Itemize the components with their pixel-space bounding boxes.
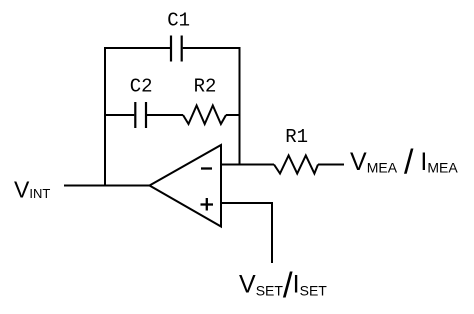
capacitor C2 <box>135 102 146 128</box>
wire inverting input to R1 <box>221 164 274 166</box>
wire R1 to V_MEA/I_MEA <box>318 164 344 166</box>
wire top feedback horizontal right of C1 <box>183 47 240 49</box>
svg-text:R2: R2 <box>194 76 217 98</box>
wire top feedback horizontal left of C1 <box>104 47 170 49</box>
wire middle branch right of R2 <box>226 114 240 116</box>
node V_MEA / I_MEA label <box>350 144 458 182</box>
capacitor C1 <box>171 36 182 62</box>
svg-text:C2: C2 <box>130 76 153 98</box>
value label C1 <box>167 10 190 32</box>
op-amp non-inverting input symbol + <box>201 198 214 211</box>
wire left feedback vertical <box>104 48 106 187</box>
op-amp U1 <box>150 145 222 227</box>
op-amp inverting input symbol - <box>201 167 212 169</box>
wire input from V_INT to op-amp apex <box>64 185 151 187</box>
resistor R2 <box>183 106 226 125</box>
wire right feedback vertical <box>239 47 241 165</box>
resistor R1 <box>274 156 318 174</box>
svg-text:R1: R1 <box>285 126 308 148</box>
wire middle branch left of C2 <box>105 114 134 116</box>
value label C2 <box>130 76 153 98</box>
node V_INT label <box>14 177 50 203</box>
wire non-inverting input horizontal <box>221 202 272 204</box>
wire middle branch between C2 and R2 <box>147 114 183 116</box>
value label R1 <box>285 126 308 148</box>
wire non-inverting input vertical down to V_SET/I_SET <box>271 202 273 263</box>
value label R2 <box>194 76 217 98</box>
svg-text:C1: C1 <box>167 10 190 32</box>
node V_SET/I_SET label <box>239 266 327 305</box>
